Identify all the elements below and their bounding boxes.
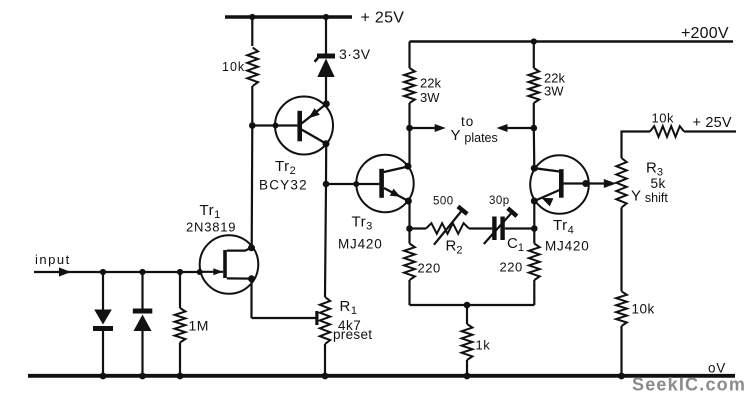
wire to Tr3 collector [408,128,410,167]
junction Tr2 emitter/zener [323,100,330,107]
svg-text:10k: 10k [652,111,674,126]
svg-text:input: input [35,252,71,267]
junction D1/0V [100,373,107,380]
resistor 10k (top right) [650,111,736,137]
junction +25V/zener [323,14,329,20]
resistor 22k 3W (right) [528,38,565,128]
wire Tr4 emitter down [533,201,535,229]
wire input line [34,271,200,273]
diode D1 [93,272,113,376]
junction Tr3 emitter [405,198,412,205]
junction input/D1 [100,269,106,275]
junction Tr1 source [248,275,255,282]
wire rail to 10k to Tr2 base junction [251,17,253,126]
junction gate/circle [197,269,203,275]
arrow to Y plates (left) [410,127,437,129]
wire junction to Tr1 drain [251,126,254,248]
wire Tr1 source down [250,279,252,318]
junction +25V/10k [249,14,255,20]
resistor 1k [462,305,491,376]
svg-text:BCY32: BCY32 [259,178,308,193]
wire 0V rail [28,374,735,378]
junction Tr4 collector [531,165,538,172]
junction Tr3 emitter/R2/220 [406,225,413,232]
svg-text:220: 220 [500,260,523,275]
junction R1/0V [322,373,329,380]
svg-text:Y shift: Y shift [631,188,668,206]
wire down to R1 [325,184,326,297]
junction D2/0V [139,373,146,380]
svg-text:10k: 10k [632,302,655,317]
transistor Tr4 MJ420 [530,155,616,253]
wire +25V right branch [622,132,651,159]
resistor 220 (left) [404,229,441,306]
junction input/D2 [139,269,145,275]
junction Tr2 collector [323,140,330,147]
svg-text:+ 25V: + 25V [693,115,732,131]
junction 10k/0V [618,373,625,380]
svg-text:220: 220 [418,261,441,276]
svg-text:22k: 22k [420,76,441,91]
diode D2 [133,272,153,376]
junction 1M/0V [177,373,184,380]
resistor 220 (right) [500,229,540,306]
wire to Tr4 collector [533,128,536,168]
svg-text:+200V: +200V [681,25,729,42]
junction Tr4 emitter [531,198,538,205]
svg-text:3·3V: 3·3V [339,46,371,62]
junction Tr4 emitter/C1/220 [531,225,538,232]
svg-text:500: 500 [433,196,454,208]
junction input/1M [177,269,183,275]
junction right Y-plate tap [531,125,538,132]
resistor 10k (bottom right) [616,208,655,377]
junction Tr1 drain [248,244,255,251]
svg-text:MJ420: MJ420 [338,237,383,252]
svg-text:10k: 10k [222,60,245,74]
svg-text:3W: 3W [544,84,564,99]
junction 1k top [464,302,471,309]
zener diode 3.3V [315,17,371,104]
junction Tr3 base/circle [353,181,359,187]
junction left Y-plate tap [406,125,413,132]
junction Tr4 base/circle [582,180,589,187]
junction collector/Tr3 base [323,181,330,188]
resistor 22k 3W (left) [404,42,441,129]
resistor R2 500 variable [410,196,470,257]
svg-text:+ 25V: + 25V [361,10,405,27]
svg-text:3W: 3W [420,90,440,105]
transistor Tr2 BCY32 [252,97,333,193]
wire 220s bottom join [410,304,535,306]
svg-text:SeekIC.com: SeekIC.com [632,375,746,395]
junction 1k/0V [464,373,471,380]
svg-text:2N3819: 2N3819 [186,220,236,235]
svg-text:1k: 1k [476,338,491,353]
capacitor C1 30p variable [469,195,534,254]
resistor 1M [175,272,209,376]
resistor R1 4k7 preset [252,297,373,376]
potentiometer R3 5k Y shift [616,158,668,208]
wire +25V top rail [225,15,352,18]
junction 10k/Tr2 base [249,122,256,129]
transistor Tr3 MJ420 [326,155,414,252]
svg-text:30p: 30p [489,195,510,207]
wire Tr3 emitter down [408,201,410,229]
svg-text:preset: preset [333,327,372,342]
wire Tr2 collector down [325,144,327,184]
svg-text:5k: 5k [651,176,666,191]
junction Tr2 base/circle [273,123,279,129]
resistor 10k (upper left) [222,46,260,86]
svg-text:1M: 1M [189,318,209,334]
junction Tr3 collector [405,163,412,170]
arrow to Y plates (right) [506,127,534,129]
svg-text:MJ420: MJ420 [545,239,590,254]
svg-text:oV: oV [708,361,726,376]
transistor Tr1 2N3819 [186,202,258,294]
input arrow [59,268,71,277]
wire +200V rail [410,40,734,43]
